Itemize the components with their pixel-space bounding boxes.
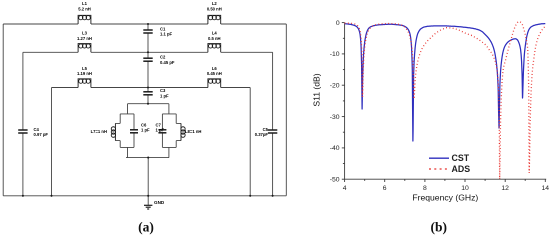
wire left rail inner	[51, 88, 53, 196]
node row3/center	[147, 86, 149, 88]
node row1/center	[147, 23, 149, 25]
axis ticks	[344, 179, 346, 182]
svg-text:L7=1 nH: L7=1 nH	[91, 129, 107, 134]
svg-text:(a): (a)	[138, 219, 154, 234]
svg-text:0.37pF: 0.37pF	[255, 132, 269, 137]
svg-text:(b): (b)	[431, 219, 448, 234]
label L5 value	[77, 66, 92, 76]
svg-text:ADS: ADS	[452, 164, 471, 174]
svg-text:S11 (dB): S11 (dB)	[312, 73, 322, 106]
wire left rail outer	[2, 24, 4, 196]
label C4 value	[34, 127, 49, 137]
svg-text:14: 14	[542, 185, 550, 192]
svg-text:CST: CST	[452, 153, 470, 163]
inductor L6	[208, 79, 221, 88]
label L2 value	[207, 1, 222, 11]
capacitor C2	[143, 58, 152, 61]
wire right rail inner	[249, 88, 251, 196]
node bottom rail joints	[22, 195, 24, 197]
svg-text:GND: GND	[154, 200, 165, 205]
svg-text:1.19 nH: 1.19 nH	[77, 71, 92, 76]
chart y-axis	[344, 23, 346, 180]
wire left rail mid	[22, 52, 24, 196]
label C3 value	[160, 88, 169, 98]
label C7 value	[156, 122, 165, 132]
curve CST (blue solid)	[345, 24, 546, 141]
legend ADS	[429, 168, 449, 170]
label L8 value	[185, 129, 201, 134]
wire row2	[23, 51, 273, 53]
label C1 value	[160, 26, 173, 36]
inductor L2	[208, 15, 221, 24]
svg-text:0.50 nH: 0.50 nH	[207, 6, 222, 11]
wire row3	[52, 87, 251, 89]
svg-text:-40: -40	[330, 145, 340, 152]
svg-text:-20: -20	[330, 83, 340, 90]
label C5 value	[255, 127, 269, 137]
chart x-axis	[345, 178, 547, 180]
legend CST	[429, 157, 449, 159]
capacitor C5	[268, 130, 277, 133]
svg-text:0: 0	[336, 20, 340, 27]
capacitor C3	[143, 92, 152, 95]
wire bottom rail	[3, 195, 286, 197]
label C2 value	[160, 55, 175, 65]
label L7 value	[91, 129, 107, 134]
curve ADS (red dotted)	[345, 22, 546, 180]
label L4 value	[208, 31, 221, 41]
svg-text:1 pF: 1 pF	[160, 93, 169, 98]
wire right branch coil jogs	[176, 123, 181, 140]
node row2/center	[147, 51, 149, 53]
wire right branch box	[162, 114, 176, 147]
wire ground stub	[147, 196, 149, 205]
label L6 value	[207, 66, 222, 76]
wire center column	[147, 24, 149, 104]
svg-text:0.5 nH: 0.5 nH	[208, 36, 221, 41]
node resonator bottom	[147, 157, 149, 159]
capacitor C1	[143, 30, 152, 33]
svg-text:1.27 nH: 1.27 nH	[77, 36, 92, 41]
svg-text:8: 8	[423, 185, 427, 192]
label GND	[154, 200, 165, 205]
svg-text:1.1 pF: 1.1 pF	[160, 32, 173, 37]
node resonator top	[147, 103, 149, 105]
inductor L3	[78, 44, 91, 53]
inductor L7	[111, 123, 115, 140]
wire resonator bottom bar	[126, 147, 169, 195]
svg-text:-10: -10	[330, 51, 340, 58]
wire row1	[3, 23, 286, 25]
label L1 value	[78, 1, 91, 11]
ground GND	[144, 205, 152, 209]
svg-text:0.45 nH: 0.45 nH	[207, 71, 222, 76]
svg-text:0.45 pF: 0.45 pF	[160, 60, 175, 65]
capacitor C6	[130, 130, 138, 133]
capacitor C4	[18, 130, 27, 133]
wire right rail outer	[285, 24, 287, 196]
wire left branch box	[120, 114, 134, 147]
inductor L8	[181, 123, 185, 140]
wire right rail mid	[272, 52, 274, 196]
svg-text:Frequency (GHz): Frequency (GHz)	[412, 193, 478, 203]
svg-text:0.97 pF: 0.97 pF	[34, 132, 49, 137]
svg-text:1 pF: 1 pF	[156, 128, 165, 133]
label L3 value	[77, 31, 92, 41]
svg-text:-50: -50	[330, 177, 340, 184]
inductor L1	[78, 15, 91, 24]
label C6 value	[141, 122, 150, 132]
svg-text:L8=1 nH: L8=1 nH	[185, 129, 201, 134]
wire resonator top bar	[128, 104, 169, 114]
svg-text:10: 10	[461, 185, 469, 192]
svg-text:5.2 nH: 5.2 nH	[78, 6, 91, 11]
svg-text:-30: -30	[330, 114, 340, 121]
wire left branch coil jogs	[115, 123, 120, 140]
svg-text:1 pF: 1 pF	[141, 128, 150, 133]
svg-text:12: 12	[501, 185, 509, 192]
svg-text:4: 4	[343, 185, 347, 192]
inductor L4	[208, 44, 221, 53]
svg-text:6: 6	[383, 185, 387, 192]
capacitor C7	[158, 130, 166, 133]
inductor L5	[78, 79, 91, 88]
